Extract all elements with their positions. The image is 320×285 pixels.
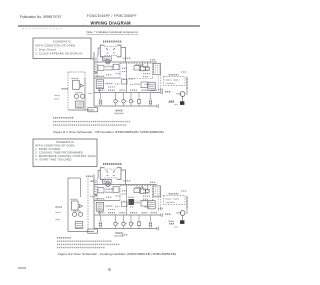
wire mid horizontal fig2 [94,200,120,202]
monitor switch speckle fig1 [104,58,110,60]
relay K2 box fig2 [141,201,148,207]
wire drop upper x131.0 fig1 [130,93,132,100]
latch inner speckle c fig2 [167,201,175,203]
bus N end bracket fig2 [161,213,163,217]
small box under dashed box fig1 [122,80,128,85]
control board pin speckles fig2 [143,189,151,191]
wire bus N fig2 [94,214,161,216]
latch small label right fig2 [181,190,187,192]
terminal block pins fig1 [155,65,159,73]
label under latch fig1 [169,101,175,103]
wire bus L2 fig2 [94,228,157,230]
wire mid horizontal fig1 [94,77,120,79]
crossing switch marks fig1 [95,71,97,74]
control board inner relay fig2 [134,188,141,192]
svg-text:Note: * Indicates functional c: Note: * Indicates functional component. [87,30,139,34]
fig2 thermal cutout box [88,229,98,233]
latch assembly dashed box fig2 [163,196,185,205]
label L1 fig2 [91,180,95,182]
wire drop lower x139 fig1 [138,103,140,106]
mid band speckle b fig2 [145,206,151,208]
door switch box fig1 [98,65,104,70]
latch right rail fig1 [186,77,188,95]
mid band speckle b fig1 [145,84,151,86]
load circle x123.5 fig2 [122,222,127,225]
crossing switch marks fig2 [95,194,97,197]
left column rail fig2 [160,189,162,212]
left column labels fig2 [158,208,163,210]
svg-text:1. DOOR CLOSED: 1. DOOR CLOSED [35,147,60,151]
svg-text:SCHEMATIC: SCHEMATIC [53,39,71,43]
wire mid vertical divider fig2 [126,185,128,216]
fig1 HV inner rail [84,78,86,110]
element load box x139 fig2 [137,222,140,226]
fig1 HV capacitor C1 [73,80,80,89]
interlock contact marks fig1 [106,48,115,53]
wire drop upper x115.5 fig2 [115,215,117,222]
svg-text:1. Door Closed: 1. Door Closed [35,47,56,51]
fig2 notes line1 [57,237,71,239]
wire left rail inner fig1 [96,56,98,79]
interlock linkage dashed bottom fig1 [105,54,117,56]
relay K1 box fig2 [140,189,145,193]
control board pin speckles fig1 [143,66,151,68]
wire drop upper x123.5 fig2 [123,215,125,222]
hatched terminal box fig2 [148,201,155,209]
mid extra speckle b fig2 [108,209,115,211]
fig1 HV loop top [68,71,85,73]
svg-text:4. 'START' PAD TOUCHED: 4. 'START' PAD TOUCHED [35,158,71,162]
wire drop upper x131.0 fig2 [130,215,132,222]
mid extra speckle c fig1 [115,83,120,85]
element load box x139 fig1 [137,99,140,103]
terminal block TB1 fig1 [153,63,160,74]
left column labels fig1 [158,89,163,91]
latch rail ticks fig2 [186,198,188,207]
fig1 HV loop bottom [68,109,94,111]
svg-text:6991B: 6991B [18,266,26,270]
fig2 stray mark right [122,234,128,236]
fig2 notes line2 [57,240,112,242]
mid band speckle a fig1 [130,84,134,86]
load circle x115.5 fig2 [114,222,119,225]
label relay K1 fig2 [136,186,144,188]
interlock linkage dashed top fig2 [105,168,117,170]
label above bus speckle fig1 [123,57,131,59]
svg-text:Publication No. 5995579757: Publication No. 5995579757 [20,15,62,19]
wire interlock right step to bus fig2 [121,170,126,185]
fig1 magnetron filament B [81,94,85,98]
svg-text:FGMC3065PF / FPMC3085PF: FGMC3065PF / FPMC3085PF [87,14,137,18]
fig2 HV transformer T1 [75,222,83,229]
connector bracket right fig1 [149,99,151,105]
latch inner speckle a fig1 [166,79,172,81]
wire drop stub x150 fig1 [149,93,151,107]
wire interlock left stub fig1 [98,48,100,56]
latch motor M1 fig1 [180,92,185,97]
control left speckles fig1 [122,67,128,69]
component labels row fig2 [98,212,105,214]
bus L2 end bracket fig1 [157,104,159,108]
svg-text:WITH CONDITION OF OVEN:: WITH CONDITION OF OVEN: [35,144,75,148]
left rail tick marks fig2 [95,187,97,195]
label right of bus N fig1 [165,91,171,93]
fig2 loop side label b [56,219,61,221]
wire drop from T2 fig2 [99,211,101,215]
wire latch stem fig1 [182,96,184,101]
header rule [18,25,200,27]
label above terminal block fig1 [150,59,156,61]
svg-text:Figure 8-2 Oven Schematic - C: Figure 8-2 Oven Schematic - Cooking Cond… [58,252,176,256]
fig1 notes line1 [53,117,74,119]
label LV transformer fig2 [106,205,113,207]
thermostat box fig2 [113,187,119,193]
control board inner relay fig1 [134,66,141,70]
latch right rail fig2 [186,196,188,214]
dashed rail mid-right fig1 [157,76,159,93]
fig1 inner rail top stub [84,72,86,78]
pilot lamp PL1 fig1 [145,67,149,71]
latch inner speckle b fig2 [174,198,179,200]
wire bus L2 fig1 [94,105,157,107]
header rule echo [22,28,63,30]
wire relay drops fig1 [143,62,148,67]
fig2 label above loop [86,175,94,177]
left rail tick marks fig1 [95,64,97,72]
wire bus L1 fig1 [94,61,157,63]
connector bracket left fig1 [99,99,102,105]
wire mid vertical divider fig1 [126,62,128,93]
mid extra tick marks fig1 [95,58,97,60]
latch assembly dashed box fig1 [163,77,185,86]
fig2 notes line4 [57,247,105,249]
fig2 HV inner vertical [80,178,82,197]
wire drop lower x123.5 fig1 [123,103,125,106]
wire drop lower x131.0 fig1 [130,103,132,106]
svg-text:SCHEMATIC: SCHEMATIC [56,140,74,144]
interlock switch SW1 left bracket fig2 [100,168,104,180]
control board dashed box fig1 [120,63,153,78]
mid small marks fig2 [116,195,121,197]
LV transformer windings fig2 [97,204,102,210]
fig2 HV capacitor C1 [72,201,79,210]
wire drop lower x115.5 fig2 [115,226,117,229]
load circle x123.5 fig1 [122,100,127,103]
fig1 HV transformer T1 [76,101,84,108]
svg-text:3. MICROWAVE COOKING CONTROL ': 3. MICROWAVE COOKING CONTROL 'HIGH' [35,154,96,158]
label secondary fig2 [106,191,113,193]
fig1 HV dashed rail [67,72,69,110]
fig1 label HVC [72,77,79,79]
wire bus1 to latch top fig1 [156,62,158,74]
label above bus speckle fig2 [123,180,131,182]
relay K2 speckle fig2 [135,202,140,204]
latch inner speckle c fig1 [167,82,175,84]
left column rail fig1 [160,70,162,93]
label fuse row fig2 [96,198,105,200]
fig2 label HVC [71,198,78,200]
label L1 fig1 [91,58,95,60]
pilot lamp PL1 fig2 [145,189,149,193]
small box under dashed box fig2 [122,202,128,207]
mid band speckle a fig2 [130,206,134,208]
bus L2 end bracket fig2 [157,227,159,231]
terminal block pins fig2 [155,187,159,195]
mid extra speckle c fig2 [115,206,120,208]
fig2 HV dashed rail [67,178,69,232]
connector bracket right fig2 [149,222,151,228]
mid extra speckle b fig1 [108,86,115,88]
label door interlock assembly fig1 [103,41,122,43]
interlock switch SW2 right bracket fig2 [117,168,121,180]
monitor switch speckle fig2 [104,180,110,182]
relay K2 speckle fig1 [135,83,140,85]
label right of bus N fig2 [165,213,171,215]
thermostat box fig1 [113,64,119,70]
svg-text:Figure 8-1 Oven Schematic - O: Figure 8-1 Oven Schematic - Off Conditio… [53,130,163,134]
relay K1 box fig1 [140,66,145,70]
fig1 notes line2 [53,121,130,123]
wire drop stub x150 fig2 [149,215,151,229]
label EOC line2 fig2 [115,235,125,237]
latch plug blob fig1 [180,101,184,105]
interlock switch SW1 left bracket fig1 [100,45,104,57]
wire bus1 to latch top fig2 [156,181,158,193]
wire drop upper x123.5 fig1 [123,93,125,100]
stray mark right of bus L2 fig2 [169,223,174,225]
wire drop upper x115.5 fig1 [115,93,117,100]
fig1 label magnetron [76,92,83,94]
wire drop stub x100 fig1 [100,93,102,107]
bus N end bracket fig1 [161,91,163,95]
mid extra tick marks fig2 [95,181,97,183]
control board dashed box fig2 [120,186,153,201]
label door switch fig1 [106,66,115,68]
fig1 HV diode D1 [81,84,84,87]
monitor switch box fig2 [103,179,112,183]
speckle under dashed box left fig1 [129,78,135,80]
LV transformer T2 box fig1 [96,80,103,89]
monitor switch box fig1 [103,57,112,61]
wire bus N fig1 [94,92,161,94]
wire bus L1 fig2 [94,184,157,186]
relay K2 box fig1 [141,82,148,88]
wire interlock left stub fig2 [98,171,100,179]
latch plug blob fig2 [180,220,184,224]
fig1 label GRN [62,88,69,90]
svg-text:2. CLOCK APPEARS ON DISPLAY: 2. CLOCK APPEARS ON DISPLAY [35,51,82,55]
fig2 label GRN [56,206,63,208]
interlock switch SW2 right bracket fig1 [117,45,121,57]
fig1 loop mark near rail [89,93,93,95]
load circle x115.5 fig1 [114,100,119,103]
label secondary fig1 [106,69,113,71]
label under latch fig2 [169,220,175,222]
fig1 T1 windings [77,103,83,107]
fig2 HV loop top [68,177,81,179]
latch inner speckle a fig2 [166,198,172,200]
connector bracket left fig2 [99,222,102,228]
wire left rail outer fig2 [93,175,95,229]
label fuse row fig1 [96,75,105,77]
oven lamp LA1 fig1 [106,59,111,64]
interlock linkage dashed bottom fig2 [105,177,117,179]
schematic condition box 1 [33,38,91,59]
label door interlock assembly fig2 [103,163,122,165]
fig1 loop side label b [55,98,60,100]
fig2 T1 windings [76,224,82,228]
terminal block TB1 fig2 [153,186,160,197]
control left speckles fig2 [122,190,128,192]
svg-text:WITH CONDITION OF OVEN:: WITH CONDITION OF OVEN: [35,43,76,47]
fig2 magnetron filament A [72,212,76,216]
fig2 loop side label a [56,212,62,214]
interlock contact marks fig2 [106,171,115,176]
wire relay drops fig2 [143,185,148,190]
load circle x131.0 fig1 [129,100,134,103]
label latch assembly fig2 [169,193,179,195]
latch inner speckle b fig1 [174,79,179,81]
label M1 fig1 [177,93,182,95]
fig1 thermal cutout box [88,108,98,112]
mid small marks fig1 [116,73,121,75]
component labels row fig1 [98,89,105,91]
wire drop lower x139 fig2 [138,226,140,229]
fig1 notes line3 [53,124,127,126]
label EOC line2 fig1 [115,112,125,114]
hatched terminal box fig1 [148,82,155,90]
label M1 fig2 [177,212,182,214]
label relay K1 fig1 [136,64,144,66]
wire left rail inner fig2 [96,178,98,201]
wire drop upper x139 fig2 [138,215,140,222]
dashed rail mid-right fig2 [157,195,159,212]
fig1 loop side label a [55,95,61,97]
fig2 HV right vertical [87,178,89,232]
wire interlock right step to bus fig1 [121,48,126,63]
fig2 magnetron filament B [79,212,83,216]
load circle x131.0 fig2 [129,222,134,225]
fig2 HV loop bottom [68,231,94,233]
fig2 notes line3 [57,243,120,245]
fig1 magnetron filament A [74,94,78,98]
door switch box fig2 [98,188,104,193]
label EOC line1 fig1 [116,110,124,112]
latch rail ticks fig1 [186,79,188,88]
svg-text:WIRING DIAGRAM: WIRING DIAGRAM [91,21,132,26]
mid extra speckle a fig2 [106,196,112,198]
interlock linkage dashed top fig1 [105,46,117,48]
mid extra speckle a fig1 [106,74,112,76]
fig2 energized relay blob [129,199,135,205]
fig2 label magnetron [74,210,81,212]
wire drop upper x139 fig1 [138,93,140,100]
fig2 loop mark near rail [90,196,94,198]
speckle under dashed box left fig2 [129,196,135,198]
label EOC line1 fig2 [116,232,124,234]
label LV transformer fig1 [106,83,113,85]
oven lamp LA1 fig2 [106,182,111,187]
wire drop stub x100 fig2 [100,215,102,229]
label above terminal block fig2 [150,181,156,183]
fig2 HV diode D1 [79,205,82,208]
latch small label right fig1 [181,71,187,73]
schematic condition box 2 [33,139,97,167]
svg-text:2. COOKING TIME PROGRAMMED: 2. COOKING TIME PROGRAMMED [35,151,83,155]
wire drop lower x123.5 fig2 [123,226,125,229]
latch motor M1 fig2 [180,211,185,216]
LV transformer T2 box fig2 [96,202,103,211]
stray mark right of bus L2 fig1 [169,100,174,102]
wire drop lower x131.0 fig2 [130,226,132,229]
label door switch fig2 [106,188,115,190]
wire latch stem fig2 [182,215,184,220]
wire drop from T2 fig1 [99,89,101,93]
label latch assembly fig1 [169,74,179,76]
wire left rail outer fig1 [93,52,95,106]
LV transformer windings fig1 [97,82,102,88]
wire drop lower x115.5 fig1 [115,103,117,106]
